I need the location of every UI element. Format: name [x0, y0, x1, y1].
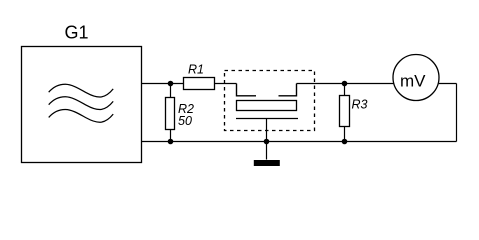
svg-text:mV: mV	[400, 72, 426, 91]
svg-text:50: 50	[178, 114, 192, 128]
svg-text:G1: G1	[65, 23, 89, 43]
svg-text:R1: R1	[188, 62, 204, 76]
svg-text:R3: R3	[352, 98, 368, 112]
